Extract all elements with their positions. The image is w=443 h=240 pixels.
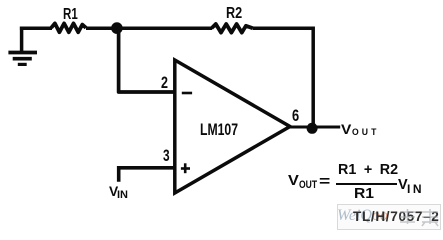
output junction dot (307, 123, 318, 134)
label V_OUT : OUT subscript (352, 128, 379, 138)
label V_IN : IN subscript (117, 190, 128, 201)
label V_IN : V (109, 185, 118, 199)
watermark CJK glyphs mimic (398, 206, 442, 228)
plus sign pin 3 (181, 163, 190, 173)
label LM107 (200, 122, 238, 138)
wire op-amp output to V_OUT (290, 126, 340, 129)
wire ground to R1 (20, 26, 52, 30)
wire R2 to output node (253, 28, 313, 127)
resistor R2 (212, 24, 254, 33)
text TL/H/7057-2 (353, 210, 440, 224)
label V_OUT : V (341, 123, 351, 137)
op-amp U1 triangle (175, 60, 290, 193)
formula fraction bar (336, 183, 397, 185)
pin number 2 (161, 75, 168, 92)
pin number 3 (163, 148, 170, 165)
label R1 (63, 7, 78, 23)
watermark WeiQ text (337, 207, 388, 225)
formula numerator R1 + R2 (338, 163, 398, 177)
wire V_IN to pin 3 (119, 168, 175, 182)
formula V_IN : V (398, 178, 408, 193)
formula denominator R1 (354, 187, 374, 202)
label R2 (226, 6, 242, 22)
watermark box (337, 204, 441, 230)
ground (8, 27, 37, 65)
formula V_OUT : V (288, 174, 299, 189)
wire node down to pin 2 (119, 28, 175, 92)
minus sign pin 2 (182, 92, 192, 95)
formula V_IN : IN subscript (407, 183, 424, 195)
node junction dot (111, 22, 123, 34)
wire R1 to node to R2 (86, 26, 212, 30)
formula equals sign (319, 175, 330, 190)
formula V_OUT : OUT subscript (299, 180, 317, 191)
resistor R1 (51, 23, 86, 32)
pin number 6 (292, 108, 299, 125)
